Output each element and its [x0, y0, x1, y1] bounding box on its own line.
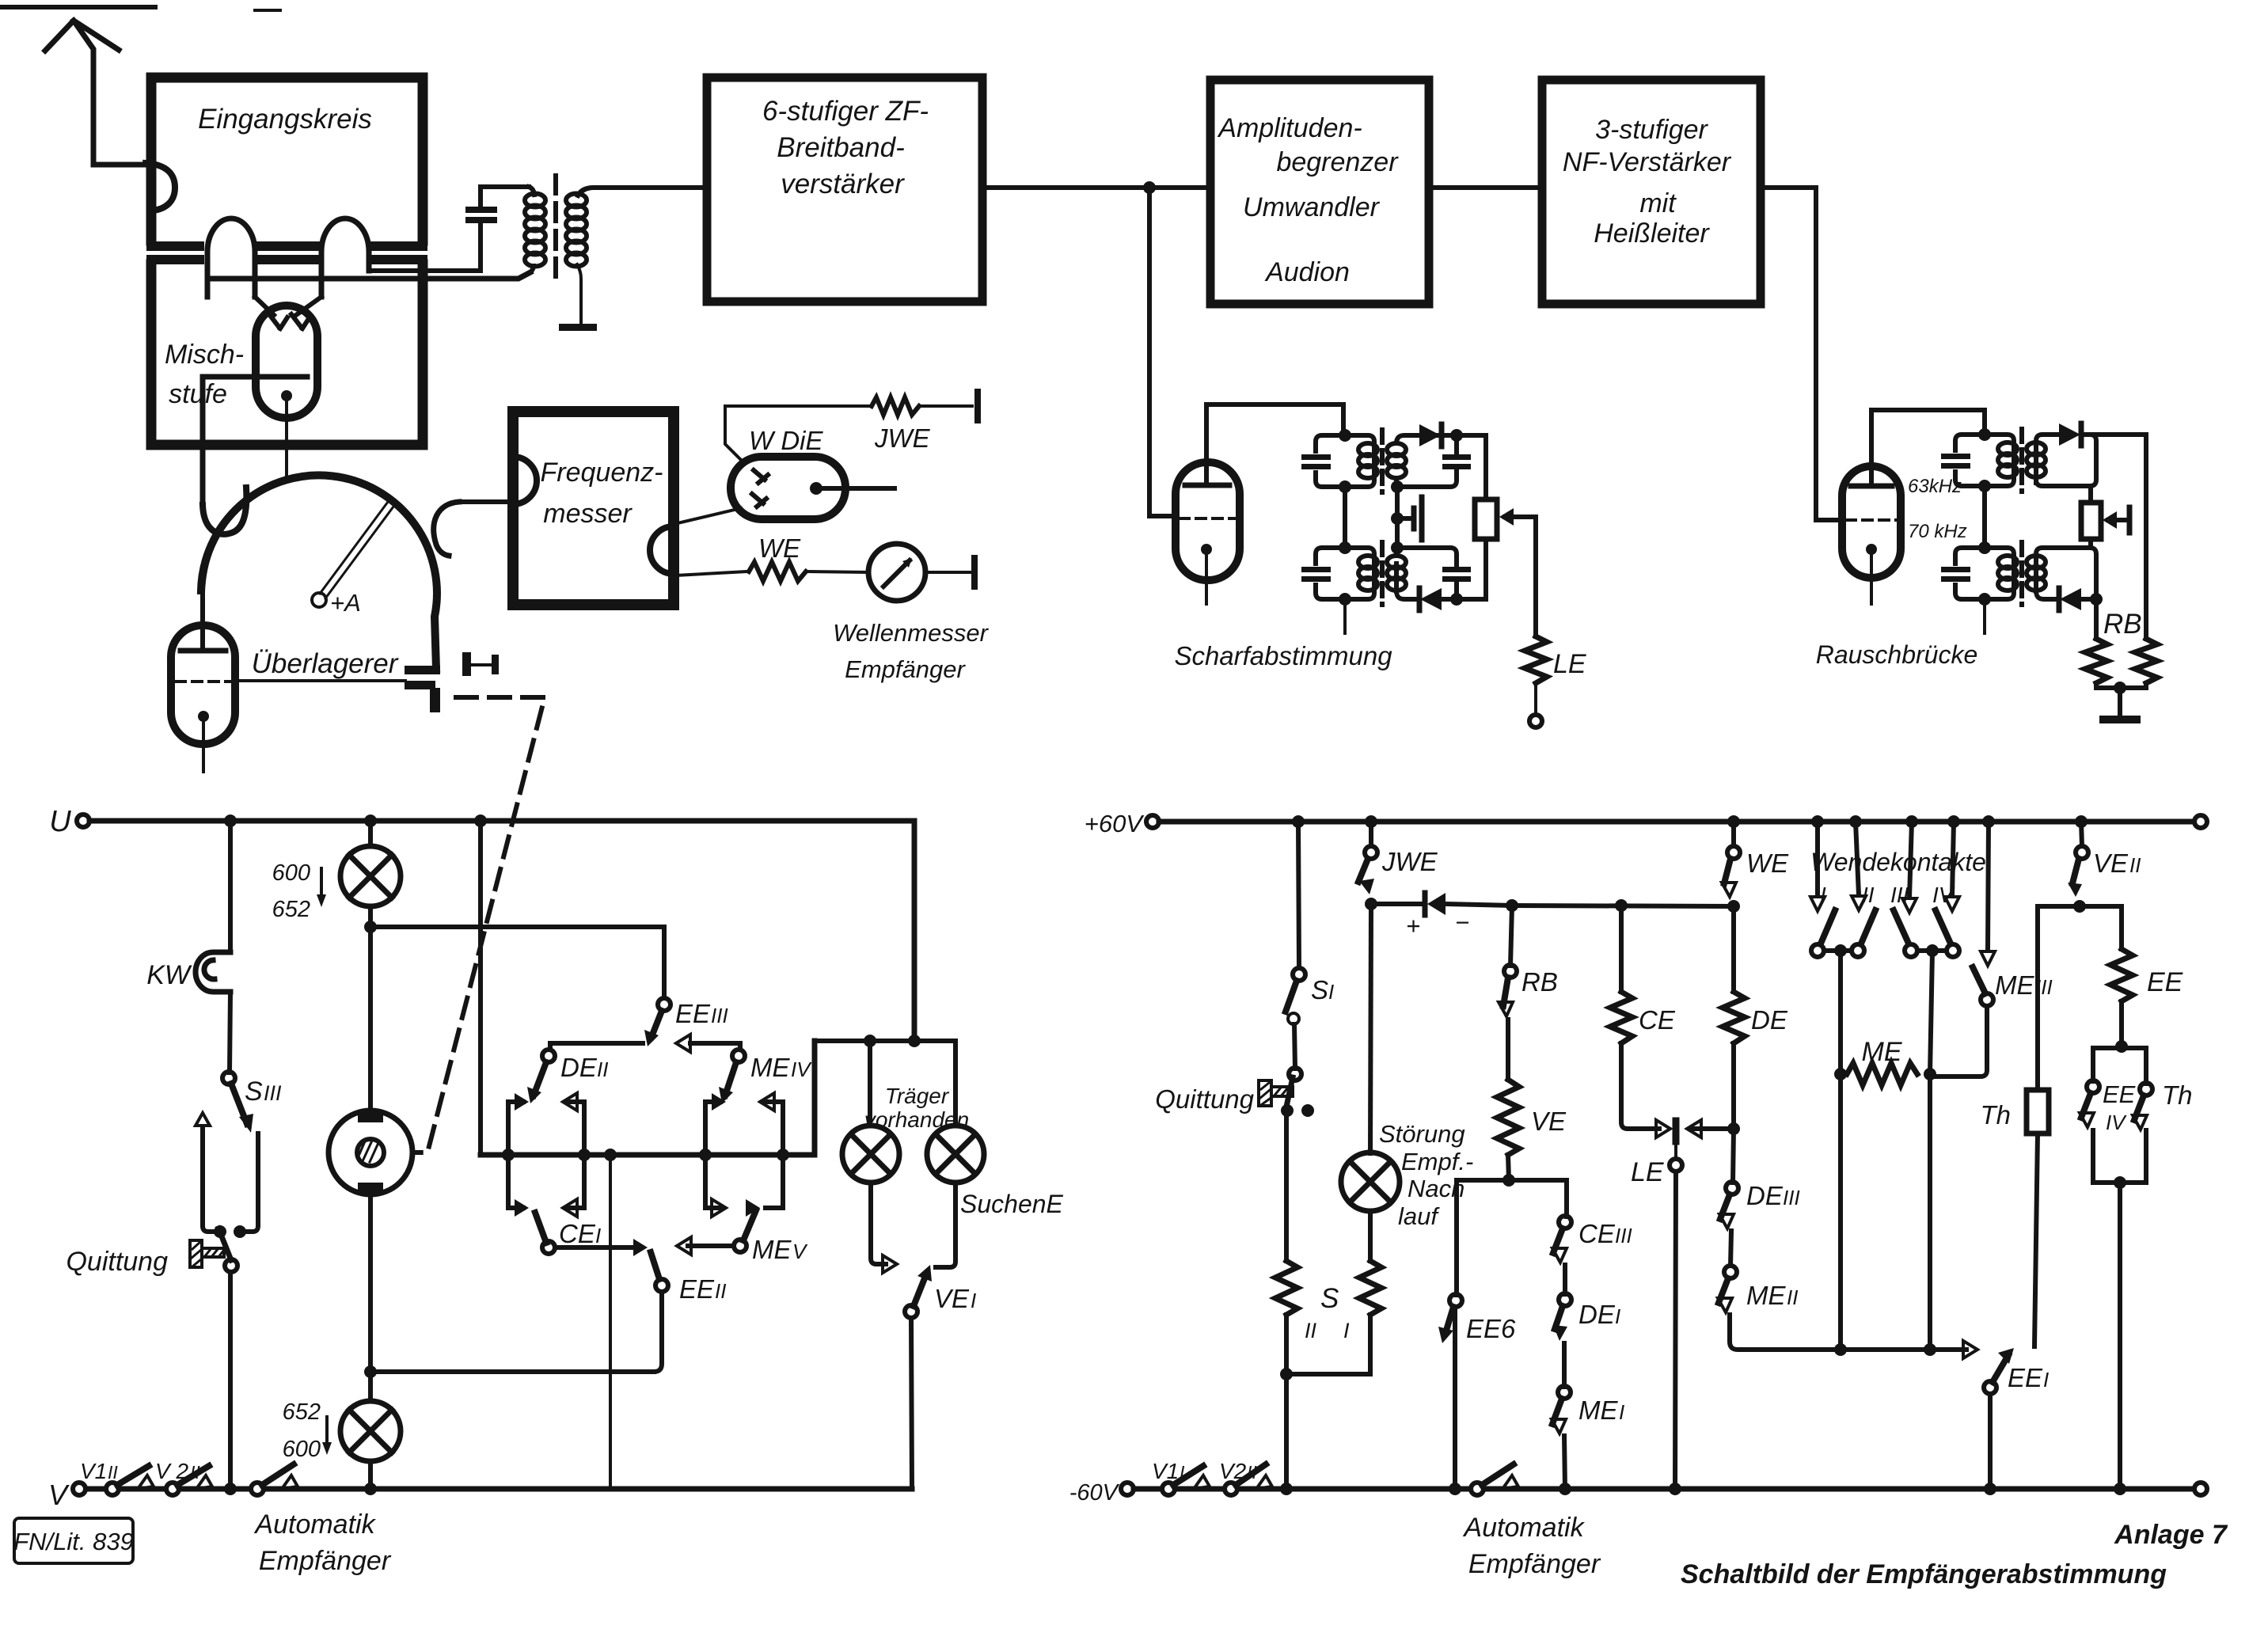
- tank coil primary lower (RB): [1998, 556, 2017, 590]
- svg-text:I: I: [1180, 1462, 1185, 1483]
- svg-text:Empfänger: Empfänger: [259, 1546, 392, 1576]
- node secondary bottom right lower: [1450, 593, 1463, 606]
- svg-text:70 kHz: 70 kHz: [1908, 521, 1967, 542]
- svg-text:I: I: [595, 1224, 601, 1247]
- wire oscillator to Frequenzmesser loop: [458, 499, 515, 504]
- terminal rail right end: [2194, 815, 2207, 828]
- wire motor node down to lamp652: [368, 1372, 373, 1401]
- secondary coil upper: [1387, 443, 1406, 478]
- svg-text:63kHz: 63kHz: [1908, 476, 1962, 497]
- contact LE (blade bar): [1673, 1121, 1680, 1141]
- node rail Th: [2114, 1483, 2126, 1495]
- svg-text:LE: LE: [1553, 649, 1586, 679]
- svg-text:NF-Verstärker: NF-Verstärker: [1563, 147, 1732, 177]
- wire RB to VE coil: [1506, 1020, 1510, 1080]
- bridge bottom join: [2096, 683, 2146, 688]
- tube Scharfabstimmung: [1176, 462, 1240, 580]
- contact KW (thermal loop): [196, 952, 230, 992]
- contact CE I: [542, 1241, 555, 1254]
- svg-text:ME: ME: [1995, 970, 2034, 1000]
- resistor JWE: [872, 397, 919, 415]
- relay coil DE (resistor): [1723, 992, 1745, 1043]
- svg-text:Quittung: Quittung: [1155, 1084, 1254, 1114]
- node rail WE: [1727, 815, 1740, 828]
- wire ME V anvil left: [688, 1244, 734, 1248]
- svg-text:DE: DE: [1751, 1005, 1788, 1035]
- wire Th down to EE I blade: [2034, 1133, 2038, 1346]
- node rail mid: [474, 815, 487, 827]
- svg-text:WE: WE: [1746, 849, 1789, 878]
- svg-text:+: +: [1406, 912, 1420, 940]
- wire loop to grid: [296, 297, 321, 315]
- svg-text:Umwandler: Umwandler: [1243, 192, 1381, 222]
- wire lamp Traeger to VE I anvil: [871, 1183, 886, 1264]
- svg-text:EE: EE: [2008, 1363, 2043, 1392]
- bracket pair ME IV / ME V: [705, 1093, 783, 1217]
- node tank middle (RB): [1978, 480, 1991, 492]
- wire LE to terminal: [1534, 683, 1537, 715]
- wire lamp to S I coil: [1368, 1211, 1373, 1261]
- diode lower (pointing left): [1419, 588, 1442, 610]
- svg-text:Wendekontakte: Wendekontakte: [1810, 848, 1986, 876]
- svg-text:3-stufiger: 3-stufiger: [1595, 115, 1708, 145]
- secondary loop upper: [1396, 435, 1457, 487]
- switch JWE: [1369, 822, 1373, 846]
- wire loop to tank capacitor: [369, 223, 481, 271]
- svg-text:ME: ME: [750, 1053, 790, 1082]
- node rail LE: [1669, 1483, 1681, 1495]
- capacitor plates right upper: [1442, 454, 1471, 460]
- svg-text:II: II: [715, 1279, 726, 1303]
- tube Ueberlagerer: [171, 625, 235, 744]
- node LE right: [1727, 1122, 1740, 1135]
- svg-text:V: V: [792, 1240, 808, 1263]
- svg-text:II: II: [597, 1058, 608, 1081]
- wire to DE I: [1563, 1265, 1567, 1294]
- svg-text:S: S: [1311, 975, 1328, 1004]
- contact dots Quittung-L: [214, 1225, 226, 1238]
- transformer T1 secondary coil: [566, 194, 587, 267]
- svg-text:ME: ME: [1862, 1037, 1902, 1067]
- box Frequenzmesser: [513, 412, 674, 605]
- svg-text:DE: DE: [560, 1053, 598, 1082]
- wire Amplituden box to NF box: [1429, 185, 1542, 190]
- bracket pair EE IV / Th: [2093, 1046, 2146, 1084]
- branch CE: [1615, 899, 1628, 912]
- tank circuit lower-left loop: [1316, 548, 1374, 599]
- svg-text:V1: V1: [80, 1459, 107, 1483]
- wire ME left down to lower bus: [1838, 1074, 1843, 1350]
- ground symbol (RB): [2099, 688, 2141, 723]
- open terminal: [1529, 715, 1542, 727]
- tube mixer anode bar: [266, 374, 307, 380]
- wire EE II branch down: [609, 1155, 612, 1489]
- terminal +60V: [1146, 815, 1159, 828]
- svg-text:EE: EE: [2147, 967, 2183, 997]
- svg-text:Rauschbrücke: Rauschbrücke: [1816, 640, 1978, 669]
- contact V2 II: [166, 1483, 179, 1495]
- svg-text:W DiE: W DiE: [749, 426, 823, 455]
- wire to RB resistor left: [2094, 599, 2099, 639]
- wire tank link vertical: [1343, 487, 1347, 548]
- shield divider lower dashed line: [151, 255, 423, 264]
- svg-text:Heißleiter: Heißleiter: [1594, 218, 1710, 249]
- box 3-stufiger NF-Verstaerker mit Heissleiter: [1542, 80, 1761, 304]
- node rail VE II: [2075, 815, 2088, 828]
- box 6-stufiger ZF-Breitbandverstaerker: [707, 78, 982, 302]
- svg-text:II: II: [190, 1462, 200, 1483]
- wire EE6 to rail: [1453, 1308, 1457, 1489]
- transformer T1 core: [553, 176, 558, 283]
- wire motor node to EE II: [370, 1369, 654, 1374]
- potentiometer (Scharfabstimmung): [1475, 499, 1497, 539]
- anvil row EE III right with open arrow: [676, 1035, 740, 1052]
- switch EE6: [1454, 1180, 1459, 1295]
- tank circuit upper-left loop (RB): [1955, 435, 2014, 486]
- wire antenna to Eingangskreis hook: [93, 162, 146, 168]
- wiper arrow with stop bar (RB): [2103, 507, 2129, 533]
- wire CE I to EE II anvil: [555, 1245, 641, 1250]
- contact ME II: [1724, 1266, 1737, 1278]
- rail +60V: [1159, 819, 2201, 825]
- transformer core upper: [1380, 430, 1385, 492]
- wire EE I to rail: [1988, 1394, 1993, 1489]
- svg-text:SuchenE: SuchenE: [960, 1190, 1064, 1218]
- diode (bottom network): [1425, 893, 1446, 915]
- tank coil primary upper (RB): [1998, 442, 2017, 477]
- wire JWE to terminal: [919, 404, 972, 408]
- lamp Stoerung Empf-Nachlauf: [1341, 1152, 1400, 1211]
- stray scan line top-left: [2, 5, 155, 9]
- wire node down to motor: [368, 927, 373, 1111]
- contacts Wendekontakte III: [1909, 822, 1912, 898]
- secondary coil lower: [1387, 556, 1406, 590]
- resistor LE: [1525, 636, 1547, 683]
- terminal V: [73, 1483, 85, 1495]
- svg-text:WE: WE: [758, 534, 801, 563]
- switch ME III: [1988, 822, 1989, 951]
- wire LE anvil right: [1692, 1126, 1734, 1131]
- tank capacitor plates (RB lower): [1941, 567, 1970, 572]
- svg-text:Nach: Nach: [1408, 1175, 1465, 1202]
- svg-text:IV: IV: [791, 1058, 812, 1081]
- switch SI: [1298, 822, 1299, 968]
- tube mixer cathode: [281, 390, 292, 401]
- node rail JWE: [1365, 815, 1377, 828]
- svg-text:lauf: lauf: [1398, 1202, 1440, 1230]
- svg-text:II: II: [1305, 1319, 1317, 1342]
- tube mixer (Misch-stufe): [256, 306, 317, 418]
- wire VE II node left to Th branch: [2038, 906, 2080, 1090]
- bottom rail left: [85, 1487, 912, 1492]
- svg-text:LE: LE: [1631, 1157, 1664, 1187]
- coupling loop on Frequenzmesser left edge: [513, 457, 537, 504]
- svg-text:JWE: JWE: [1381, 847, 1438, 876]
- chain CE III / DE I / ME I: [1564, 1180, 1569, 1217]
- wire loop to WDiE tube: [678, 508, 741, 523]
- wire KW to S III: [230, 992, 230, 1073]
- node lower bus left: [1834, 1343, 1847, 1356]
- wiper arrow: [1499, 508, 1536, 526]
- svg-text:-60V: -60V: [1069, 1480, 1120, 1506]
- node WE bottom: [1727, 900, 1740, 913]
- tank coil primary upper: [1358, 443, 1377, 478]
- switch RB: [1510, 906, 1512, 966]
- box Amplitudenbegrenzer Umwandler Audion: [1210, 80, 1429, 304]
- tank capacitor plates (RB upper): [1941, 454, 1970, 459]
- terminal bar: [971, 558, 978, 587]
- node rail W-I: [1811, 815, 1824, 828]
- rail U: [89, 821, 914, 1041]
- terminal rail right: [2194, 1483, 2207, 1495]
- wire potentiometer bottom: [1458, 539, 1486, 599]
- diode upper (RB): [2059, 423, 2081, 446]
- wire loop to WE resistor: [675, 571, 747, 575]
- lamp Suchen E: [927, 1126, 984, 1183]
- ground symbol: [559, 324, 597, 331]
- svg-text:II: II: [1787, 1285, 1798, 1309]
- wire wiper down to LE: [1533, 517, 1538, 636]
- svg-text:Automatik: Automatik: [253, 1509, 376, 1540]
- bracket pair DE II / CE I: [508, 1093, 584, 1217]
- svg-text:DE: DE: [1578, 1300, 1616, 1329]
- svg-text:II: II: [1247, 1462, 1257, 1483]
- svg-text:II: II: [108, 1462, 118, 1483]
- svg-text:VE: VE: [934, 1284, 970, 1313]
- node VE bottom: [1508, 1155, 1509, 1180]
- node wende I/II join: [1824, 948, 1852, 953]
- svg-text:V: V: [48, 1479, 70, 1511]
- contact DE III: [1726, 1182, 1738, 1194]
- contact dots Quittung-R: [1281, 1104, 1294, 1117]
- node S II bottom: [1280, 1368, 1293, 1380]
- node bracket2 left: [699, 1149, 712, 1161]
- svg-text:CE: CE: [1639, 1005, 1676, 1035]
- capacitor plates right lower: [1442, 567, 1471, 572]
- node lower bus right: [1924, 1343, 1936, 1356]
- wire node to EE III corner: [370, 925, 664, 929]
- tube anode bar and stem: [180, 648, 226, 654]
- node rail EE6: [1449, 1483, 1461, 1495]
- node wende III/IV join: [1917, 948, 1947, 953]
- node secondary top left lower: [1391, 541, 1404, 554]
- node rail ME III: [1982, 815, 1995, 828]
- svg-text:EE: EE: [679, 1274, 715, 1304]
- svg-text:messer: messer: [543, 499, 633, 529]
- switch VE II: [2081, 822, 2082, 846]
- corner EE III: [662, 927, 667, 998]
- svg-text:CE: CE: [1578, 1219, 1616, 1248]
- bracket bottom EE IV / Th: [2093, 1130, 2146, 1183]
- tube grid dashed: [176, 680, 233, 683]
- thermal element Th (left): [2027, 1090, 2049, 1133]
- secondary loop upper (RB): [2036, 435, 2096, 486]
- contact DE I: [1559, 1293, 1571, 1306]
- transformer core lower: [1380, 542, 1385, 605]
- box Misch-stufe (shield): [151, 264, 423, 445]
- wire SI to Quittung-R: [1294, 1024, 1295, 1069]
- node RB branch: [1506, 899, 1518, 912]
- contact EE I: [1984, 1381, 1996, 1394]
- svg-text:EE6: EE6: [1466, 1314, 1516, 1343]
- bottom rail right: [1134, 1487, 2201, 1492]
- svg-text:IV: IV: [2106, 1111, 2127, 1134]
- node secondary bottom left: [1391, 480, 1404, 493]
- node EE bottom: [2119, 1001, 2124, 1046]
- svg-text:Misch-: Misch-: [165, 340, 244, 370]
- wire lamp Suchen to VE I blade: [936, 1183, 955, 1267]
- pushbutton Quittung-L: [190, 1228, 231, 1267]
- wire to ME II: [1730, 1231, 1731, 1266]
- svg-text:I: I: [971, 1289, 976, 1312]
- wire secondary to ground: [577, 264, 581, 323]
- svg-text:IV: IV: [1932, 883, 1955, 907]
- bus EE6 row: [1457, 1178, 1567, 1183]
- coupling curl at oscillator drum: [203, 488, 246, 534]
- contact bracket S III: [203, 1127, 258, 1232]
- node bracket right: [578, 1149, 591, 1161]
- wire ME III to ME right node: [1936, 1006, 1987, 1077]
- switch S III: [222, 1072, 235, 1084]
- contact ME IV: [732, 1050, 745, 1062]
- wire JWE node down to Stoerung lamp: [1370, 904, 1371, 1153]
- secondary loop lower: [1396, 548, 1457, 599]
- svg-text:III: III: [711, 1004, 728, 1027]
- svg-text:6-stufiger ZF-: 6-stufiger ZF-: [762, 96, 929, 127]
- wire ME I to rail: [1564, 1436, 1565, 1489]
- tube Rauschbruecke: [1842, 466, 1901, 578]
- tube anode bar: [1851, 484, 1892, 489]
- svg-text:−: −: [1455, 909, 1469, 936]
- node bus EE II branch: [604, 1149, 617, 1161]
- wire wende I/II down to ME coil: [1838, 951, 1843, 1074]
- node rail W-III: [1905, 815, 1918, 828]
- pickup curl at drum: [434, 502, 459, 556]
- svg-text:KW: KW: [146, 960, 192, 990]
- svg-text:RB: RB: [1521, 967, 1558, 997]
- contact EE IV: [2087, 1080, 2099, 1093]
- wire Quittung-L to rail: [228, 1272, 233, 1489]
- svg-text:stufe: stufe: [169, 379, 227, 409]
- node rail Quittung: [224, 1483, 237, 1495]
- node JWE diode: [1365, 898, 1377, 910]
- svg-text:EE: EE: [675, 999, 711, 1028]
- svg-text:III: III: [1783, 1186, 1800, 1209]
- node tank top (RB): [1978, 428, 1991, 441]
- transformer T1 primary coil: [525, 187, 545, 272]
- wire VE I to rail: [911, 1318, 912, 1489]
- tube grid dashed: [1180, 517, 1237, 520]
- grid capacitor / terminal: [462, 652, 499, 676]
- node lower tank bottom stub (RB): [1978, 593, 1991, 606]
- svg-text:I: I: [2043, 1368, 2049, 1392]
- svg-text:FN/Lit. 839: FN/Lit. 839: [13, 1528, 134, 1555]
- node secondary top right: [1450, 429, 1463, 442]
- node tank top: [1339, 429, 1351, 442]
- svg-text:S: S: [245, 1077, 263, 1107]
- contacts Wendekontakte I: [1815, 822, 1820, 896]
- terminal bar: [974, 392, 981, 420]
- svg-text:Empfänger: Empfänger: [1468, 1549, 1601, 1579]
- svg-text:ME: ME: [752, 1235, 792, 1264]
- wire anode to tank: [1871, 410, 1985, 483]
- variable capacitor plates: [405, 666, 440, 712]
- node grid tap: [1391, 512, 1404, 525]
- secondary coil upper (RB): [2027, 442, 2046, 477]
- svg-text:U: U: [49, 805, 71, 838]
- tube cathode: [198, 711, 209, 722]
- relay coil VE (resistor): [1497, 1080, 1519, 1155]
- svg-text:Störung: Störung: [1379, 1120, 1465, 1148]
- svg-text:600: 600: [272, 860, 310, 886]
- svg-text:Empfänger: Empfänger: [845, 655, 966, 683]
- node rail SI: [1292, 815, 1305, 828]
- anvil EE I: [1930, 1347, 1966, 1352]
- svg-text:RB: RB: [2103, 609, 2142, 640]
- coupling loop on Frequenzmesser right edge: [650, 526, 674, 574]
- svg-text:CE: CE: [559, 1219, 596, 1248]
- svg-text:VE: VE: [2093, 849, 2129, 878]
- relay coil S I (resistor): [1359, 1261, 1381, 1315]
- node junction to Scharfabstimmung: [1143, 181, 1156, 194]
- node rail EE I: [1984, 1483, 1996, 1495]
- contact VE I: [905, 1305, 917, 1318]
- svg-text:V2: V2: [1219, 1459, 1247, 1483]
- wire anode to tank: [1206, 404, 1343, 482]
- svg-text:Schaltbild der Empfängerabstim: Schaltbild der Empfängerabstimmung: [1681, 1559, 2167, 1589]
- lamp bracket Traeger vorhanden: [815, 1039, 955, 1043]
- tube WDiE: [731, 457, 845, 519]
- svg-text:I: I: [1619, 1400, 1624, 1424]
- wire diode to RB node: [1446, 904, 1512, 906]
- resistor RB left: [2085, 639, 2107, 683]
- svg-text:III: III: [1615, 1224, 1632, 1247]
- grid capacitor to chassis: [1397, 497, 1422, 540]
- wire S II to rail: [1284, 1374, 1289, 1489]
- svg-text:JWE: JWE: [874, 423, 931, 453]
- svg-text:652: 652: [283, 1399, 321, 1425]
- svg-text:Wellenmesser: Wellenmesser: [833, 619, 990, 647]
- wire node to WE junction: [1512, 906, 1734, 906]
- node tank bottom: [1339, 480, 1351, 493]
- node rail ME I: [1559, 1483, 1571, 1495]
- diode lower (RB, pointing left): [2059, 588, 2081, 610]
- wire CE to LE anvil: [1621, 1043, 1659, 1129]
- tube grid dashed: [1846, 518, 1897, 522]
- contact circle below Quittung-L: [225, 1259, 237, 1272]
- svg-text:EE: EE: [2103, 1080, 2136, 1108]
- contacts Wendekontakte IV: [1952, 822, 1954, 896]
- wire WE to meter: [806, 571, 868, 572]
- motor: [329, 1110, 412, 1195]
- node rail S branch: [1280, 1483, 1293, 1495]
- contact DE II: [542, 1050, 555, 1062]
- transformer core lower (RB): [2019, 542, 2024, 605]
- contact CE III: [1559, 1216, 1571, 1228]
- svg-text:Breitband-: Breitband-: [777, 132, 904, 163]
- relay coil EE (resistor): [2110, 949, 2133, 1001]
- wire bracket to rail: [2118, 1183, 2122, 1489]
- node bracket left: [502, 1149, 515, 1161]
- tank coil primary lower: [1358, 556, 1377, 590]
- terminal -60V: [1121, 1483, 1134, 1495]
- svg-text:III: III: [1890, 883, 1909, 907]
- svg-text:Frequenz-: Frequenz-: [541, 458, 663, 488]
- secondary coil lower (RB): [2027, 556, 2046, 590]
- tank capacitor plates: [1301, 454, 1331, 460]
- relay coil CE (resistor): [1610, 992, 1632, 1043]
- wire to potentiometer: [1457, 435, 1486, 499]
